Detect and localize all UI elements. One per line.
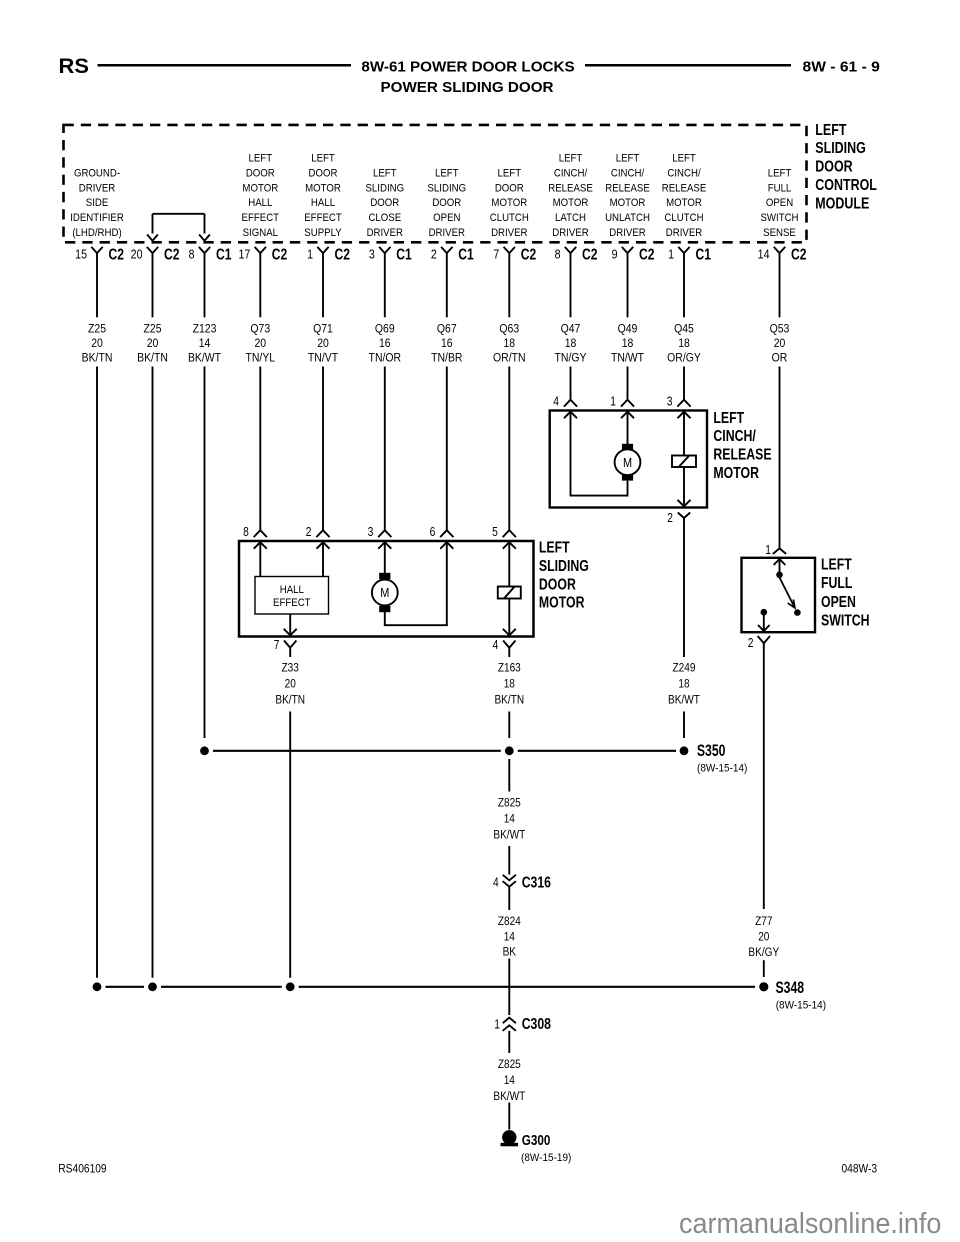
svg-text:20: 20 bbox=[254, 337, 266, 350]
svg-text:Q53: Q53 bbox=[770, 323, 790, 336]
module connector pin 20 C2 bbox=[131, 245, 180, 263]
svg-text:2: 2 bbox=[667, 512, 673, 525]
wire Z77 lower segment to S348 bbox=[763, 960, 765, 977]
sliding door motor pin 5 connector bbox=[492, 526, 516, 539]
svg-text:DRIVER: DRIVER bbox=[552, 226, 589, 239]
svg-text:LEFT: LEFT bbox=[497, 167, 521, 180]
wire Z824 from C316 bbox=[508, 887, 510, 910]
wire label Q47 18 TN/GY bbox=[555, 323, 587, 365]
wire Q53 OR upper segment from module pin bbox=[779, 253, 781, 317]
svg-text:CLUTCH: CLUTCH bbox=[490, 211, 529, 224]
splice S348 label bbox=[776, 979, 827, 1011]
wire label Z249 18 BK/WT bbox=[668, 662, 700, 707]
svg-text:6: 6 bbox=[430, 526, 436, 539]
svg-text:18: 18 bbox=[678, 337, 690, 350]
module connector pin 15 C2 bbox=[75, 245, 124, 263]
svg-text:C2: C2 bbox=[582, 245, 598, 263]
svg-text:G300: G300 bbox=[522, 1132, 551, 1149]
svg-text:C2: C2 bbox=[109, 245, 125, 263]
hall effect block bbox=[255, 543, 329, 614]
svg-text:FULL: FULL bbox=[821, 575, 853, 593]
module pin label: left door motor clutch driver bbox=[490, 167, 529, 239]
cinch motor pin 3 connector bbox=[667, 396, 691, 409]
wire label Q53 20 OR bbox=[770, 323, 790, 365]
wire Z249 lower segment to S350 bbox=[683, 712, 685, 739]
svg-text:MOTOR: MOTOR bbox=[242, 182, 278, 195]
sliding door motor entry arrow pin x=509.3 bbox=[503, 542, 516, 549]
svg-text:DOOR: DOOR bbox=[539, 576, 576, 594]
wire Z825 to ground bbox=[508, 1103, 510, 1130]
splice S348 node dots bbox=[93, 982, 769, 991]
svg-text:C2: C2 bbox=[791, 245, 807, 263]
wire label Q63 18 OR/TN bbox=[493, 323, 526, 365]
svg-text:RELEASE: RELEASE bbox=[605, 182, 650, 195]
svg-text:C2: C2 bbox=[521, 245, 537, 263]
svg-text:2: 2 bbox=[306, 526, 312, 539]
svg-text:3: 3 bbox=[369, 247, 375, 262]
wire Q47 TN/GY upper segment from module pin bbox=[570, 253, 572, 317]
svg-text:DOOR: DOOR bbox=[495, 182, 524, 195]
wire Z25 BK/TN upper segment from module pin bbox=[152, 253, 154, 317]
cinch motor pin 4 entry arrow bbox=[564, 412, 577, 419]
cinch motor pin 1 entry arrow bbox=[621, 412, 634, 419]
left sliding door motor box bbox=[239, 541, 534, 637]
header rule left bbox=[98, 64, 352, 67]
svg-text:LEFT: LEFT bbox=[616, 152, 640, 165]
svg-text:LATCH: LATCH bbox=[555, 211, 586, 224]
svg-text:20: 20 bbox=[91, 337, 103, 350]
module name label bbox=[815, 121, 877, 212]
svg-text:BK/WT: BK/WT bbox=[188, 352, 221, 365]
svg-text:Z249: Z249 bbox=[673, 662, 696, 675]
wire Q49 lower segment to cinch motor pin 1 bbox=[627, 367, 629, 400]
svg-text:C2: C2 bbox=[335, 245, 351, 263]
svg-text:C1: C1 bbox=[216, 245, 232, 263]
module pin label: left cinch/release motor unlatch driver bbox=[605, 152, 650, 239]
left cinch/release motor box bbox=[550, 411, 707, 508]
svg-text:BK: BK bbox=[503, 946, 517, 959]
cinch motor pin 3 entry arrow bbox=[678, 412, 691, 419]
module connector pin 1 C1 bbox=[668, 245, 711, 263]
sliding door motor entry arrow pin x=446.8 bbox=[440, 542, 453, 549]
sliding door motor pin 6 connector bbox=[430, 526, 454, 539]
svg-text:EFFECT: EFFECT bbox=[242, 211, 280, 224]
svg-text:OR/TN: OR/TN bbox=[493, 352, 526, 365]
svg-text:3: 3 bbox=[667, 396, 673, 409]
ground G300 symbol bbox=[501, 1130, 519, 1146]
svg-text:CONTROL: CONTROL bbox=[815, 177, 877, 195]
svg-text:Z33: Z33 bbox=[282, 662, 299, 675]
splice S350 label bbox=[697, 742, 747, 774]
sliding motor wire to pin 6 bbox=[384, 543, 448, 625]
svg-text:CINCH/: CINCH/ bbox=[713, 428, 755, 446]
svg-text:CLOSE: CLOSE bbox=[368, 211, 401, 224]
wire label Q73 20 TN/YL bbox=[245, 323, 275, 365]
wire Z25 BK/TN upper segment from module pin bbox=[96, 253, 98, 317]
svg-text:LEFT: LEFT bbox=[373, 167, 397, 180]
svg-text:OPEN: OPEN bbox=[766, 196, 793, 209]
sliding door motor entry arrow pin x=260.3 bbox=[254, 542, 267, 549]
splice S348 bus bbox=[106, 986, 756, 988]
wire label Q49 18 TN/WT bbox=[611, 323, 644, 365]
svg-text:BK/TN: BK/TN bbox=[82, 352, 113, 365]
svg-text:MODULE: MODULE bbox=[815, 195, 869, 213]
svg-text:16: 16 bbox=[441, 337, 453, 350]
wire Z825 segment below S350 bbox=[508, 759, 510, 792]
svg-text:048W-3: 048W-3 bbox=[842, 1163, 878, 1176]
module pin label: left door motor hall effect signal bbox=[242, 152, 280, 239]
svg-text:TN/OR: TN/OR bbox=[369, 352, 402, 365]
svg-text:POWER SLIDING DOOR: POWER SLIDING DOOR bbox=[381, 79, 554, 96]
svg-text:Q47: Q47 bbox=[561, 323, 581, 336]
svg-text:Z825: Z825 bbox=[498, 1058, 521, 1071]
svg-text:18: 18 bbox=[565, 337, 577, 350]
svg-text:BK/TN: BK/TN bbox=[494, 694, 524, 707]
svg-text:9: 9 bbox=[612, 247, 618, 262]
wire lower segment to sliding door motor pin 8 bbox=[259, 367, 261, 531]
splice S350 node dots bbox=[200, 746, 688, 755]
hall effect output wire to pin 7 bbox=[284, 614, 297, 635]
svg-text:S348: S348 bbox=[776, 979, 805, 997]
wire Z825 to C316 bbox=[508, 846, 510, 875]
svg-text:M: M bbox=[380, 585, 389, 600]
svg-text:MOTOR: MOTOR bbox=[539, 594, 585, 612]
footer sheet number bbox=[842, 1163, 878, 1176]
svg-text:DOOR: DOOR bbox=[432, 196, 461, 209]
svg-text:8: 8 bbox=[555, 247, 561, 262]
svg-text:Q49: Q49 bbox=[618, 323, 638, 336]
cinch internal wire pin1 to motor positive bbox=[627, 413, 629, 445]
svg-text:DRIVER: DRIVER bbox=[491, 226, 528, 239]
wire label Z163 18 BK/TN bbox=[494, 662, 524, 707]
wire Z33 through S350 area down to S348 bbox=[289, 712, 291, 978]
sliding door motor M bbox=[372, 543, 398, 612]
wire label Z825 14 BK/WT bbox=[493, 797, 525, 842]
svg-text:20: 20 bbox=[285, 678, 296, 691]
wire Q47 lower segment to cinch motor pin 4 bbox=[570, 367, 572, 400]
svg-text:Q45: Q45 bbox=[674, 323, 694, 336]
wire Z77 from switch pin 2 bbox=[763, 643, 765, 909]
svg-text:3: 3 bbox=[368, 526, 374, 539]
wire Z25 (pin 15) lower segment to S348 bbox=[96, 367, 98, 978]
svg-text:MOTOR: MOTOR bbox=[666, 196, 702, 209]
module connector pin 8 C1 bbox=[189, 245, 232, 263]
svg-text:IDENTIFIER: IDENTIFIER bbox=[70, 211, 124, 224]
svg-text:20: 20 bbox=[147, 337, 159, 350]
watermark bbox=[679, 1207, 941, 1239]
svg-text:BK/WT: BK/WT bbox=[668, 694, 700, 707]
svg-text:C316: C316 bbox=[522, 873, 551, 891]
wire Z25 (pin 20) lower segment to S348 bbox=[152, 367, 154, 978]
wire Z123 BK/WT upper segment from module pin bbox=[204, 253, 206, 317]
svg-text:BK/GY: BK/GY bbox=[748, 946, 779, 959]
svg-text:EFFECT: EFFECT bbox=[273, 596, 311, 609]
module connector pin 2 C1 bbox=[431, 245, 474, 263]
svg-text:C1: C1 bbox=[396, 245, 412, 263]
wire label Q45 18 OR/GY bbox=[667, 323, 701, 365]
svg-text:14: 14 bbox=[504, 813, 515, 826]
cinch motor pin 1 connector bbox=[610, 396, 634, 409]
svg-text:SIGNAL: SIGNAL bbox=[243, 226, 278, 239]
svg-text:RELEASE: RELEASE bbox=[713, 446, 771, 464]
svg-text:SLIDING: SLIDING bbox=[365, 182, 404, 195]
wire lower segment to sliding door motor pin 6 bbox=[446, 367, 448, 531]
wire Z825 from C308 bbox=[508, 1031, 510, 1053]
svg-text:C1: C1 bbox=[458, 245, 474, 263]
header rule right bbox=[585, 64, 791, 67]
svg-text:MOTOR: MOTOR bbox=[305, 182, 341, 195]
svg-text:DOOR: DOOR bbox=[815, 158, 853, 176]
sliding door motor pin 7 connector bbox=[274, 639, 297, 652]
wire Q73 TN/YL upper segment from module pin bbox=[259, 253, 261, 317]
svg-text:7: 7 bbox=[493, 247, 499, 262]
svg-text:4: 4 bbox=[493, 877, 499, 890]
module pin label: left sliding door close driver bbox=[365, 167, 404, 239]
splice S350 bus bbox=[213, 750, 676, 752]
wire label Q71 20 TN/VT bbox=[308, 323, 338, 365]
svg-text:MOTOR: MOTOR bbox=[610, 196, 646, 209]
module connector pin 8 C2 bbox=[555, 245, 598, 263]
full open switch pin 2 connector bbox=[748, 636, 770, 650]
svg-text:LEFT: LEFT bbox=[311, 152, 335, 165]
svg-text:SLIDING: SLIDING bbox=[427, 182, 466, 195]
footer document number bbox=[58, 1163, 106, 1176]
svg-text:2: 2 bbox=[431, 247, 437, 262]
wire label Z825 14 BK/WT (lower) bbox=[493, 1058, 525, 1103]
svg-text:1: 1 bbox=[307, 247, 313, 262]
sliding door clutch coil bbox=[498, 543, 521, 635]
wire label Z123 14 BK/WT bbox=[188, 323, 221, 365]
svg-text:TN/BR: TN/BR bbox=[431, 352, 462, 365]
wire Q71 TN/VT upper segment from module pin bbox=[322, 253, 324, 317]
wire Z249 upper segment from cinch pin 2 bbox=[683, 518, 685, 657]
svg-text:BK/TN: BK/TN bbox=[275, 694, 305, 707]
svg-text:DRIVER: DRIVER bbox=[79, 182, 116, 195]
svg-text:DRIVER: DRIVER bbox=[367, 226, 404, 239]
svg-text:SIDE: SIDE bbox=[86, 196, 109, 209]
cinch clutch coil bbox=[672, 413, 696, 507]
sliding door motor entry arrow pin x=384.8 bbox=[378, 542, 391, 549]
module pin label: left sliding door open driver bbox=[427, 167, 466, 239]
svg-text:LEFT: LEFT bbox=[815, 121, 846, 139]
svg-text:LEFT: LEFT bbox=[539, 539, 570, 557]
svg-text:4: 4 bbox=[553, 396, 559, 409]
switch blade with arrow bbox=[780, 578, 795, 608]
sliding door motor entry arrow pin x=323.0 bbox=[317, 542, 330, 549]
svg-text:1: 1 bbox=[668, 247, 674, 262]
left sliding door control module dashed outline bbox=[64, 125, 807, 242]
cinch motor M bbox=[615, 444, 641, 481]
switch output contact to pin 2 bbox=[758, 609, 770, 631]
left full open switch label bbox=[821, 556, 870, 630]
svg-text:Q69: Q69 bbox=[375, 323, 395, 336]
wire Q45 lower segment to cinch motor pin 3 bbox=[683, 367, 685, 400]
svg-text:C1: C1 bbox=[696, 245, 712, 263]
module connector pin 3 C1 bbox=[369, 245, 412, 263]
wire lower segment to sliding door motor pin 5 bbox=[508, 367, 510, 531]
svg-text:OPEN: OPEN bbox=[433, 211, 460, 224]
svg-text:MOTOR: MOTOR bbox=[491, 196, 527, 209]
svg-text:BK/TN: BK/TN bbox=[137, 352, 168, 365]
svg-text:5: 5 bbox=[492, 526, 498, 539]
svg-text:7: 7 bbox=[274, 639, 280, 652]
left full open switch box bbox=[742, 558, 816, 632]
svg-text:18: 18 bbox=[503, 337, 515, 350]
svg-text:LEFT: LEFT bbox=[768, 167, 792, 180]
svg-text:Z123: Z123 bbox=[193, 323, 217, 336]
svg-text:16: 16 bbox=[379, 337, 391, 350]
svg-text:14: 14 bbox=[504, 930, 515, 943]
module pin label: left cinch/release motor latch driver bbox=[548, 152, 593, 239]
svg-text:SLIDING: SLIDING bbox=[539, 558, 589, 576]
svg-text:Z825: Z825 bbox=[498, 797, 521, 810]
svg-text:HALL: HALL bbox=[311, 196, 335, 209]
sliding door motor pin 3 connector bbox=[368, 526, 392, 539]
svg-text:Q63: Q63 bbox=[499, 323, 519, 336]
svg-text:TN/VT: TN/VT bbox=[308, 352, 338, 365]
svg-text:SLIDING: SLIDING bbox=[815, 140, 866, 158]
wire Q63 OR/TN upper segment from module pin bbox=[508, 253, 510, 317]
svg-text:C2: C2 bbox=[164, 245, 180, 263]
wire Q67 TN/BR upper segment from module pin bbox=[446, 253, 448, 317]
svg-text:Q73: Q73 bbox=[250, 323, 270, 336]
svg-text:HALL: HALL bbox=[248, 196, 272, 209]
svg-text:CINCH/: CINCH/ bbox=[611, 167, 644, 180]
svg-text:EFFECT: EFFECT bbox=[304, 211, 342, 224]
wire label Z77 20 BK/GY bbox=[748, 915, 779, 959]
wire label Z25 20 BK/TN bbox=[137, 323, 168, 365]
header title bbox=[361, 59, 574, 96]
svg-text:14: 14 bbox=[504, 1074, 515, 1087]
svg-text:Z25: Z25 bbox=[88, 323, 106, 336]
left cinch/release motor label bbox=[713, 410, 771, 483]
svg-text:20: 20 bbox=[317, 337, 329, 350]
svg-text:14: 14 bbox=[199, 337, 211, 350]
wire Z163 lower segment to S350 bbox=[508, 712, 510, 739]
switch open contact bbox=[794, 609, 801, 616]
svg-text:4: 4 bbox=[493, 639, 499, 652]
svg-text:TN/WT: TN/WT bbox=[611, 352, 644, 365]
svg-text:S350: S350 bbox=[697, 742, 726, 760]
wire label Q67 16 TN/BR bbox=[431, 323, 462, 365]
module pin label: left door motor hall effect supply bbox=[304, 152, 342, 239]
svg-text:DRIVER: DRIVER bbox=[666, 226, 703, 239]
svg-text:RELEASE: RELEASE bbox=[662, 182, 707, 195]
svg-text:C308: C308 bbox=[522, 1015, 551, 1033]
wire Z33 from pin 7 bbox=[289, 648, 291, 657]
wire Z824 through S348 to C308 bbox=[508, 959, 510, 1016]
svg-text:SUPPLY: SUPPLY bbox=[304, 226, 341, 239]
svg-text:M: M bbox=[623, 455, 632, 470]
svg-text:8W - 61 - 9: 8W - 61 - 9 bbox=[803, 59, 880, 76]
svg-text:OR/GY: OR/GY bbox=[667, 352, 701, 365]
svg-text:20: 20 bbox=[774, 337, 786, 350]
svg-text:DRIVER: DRIVER bbox=[429, 226, 466, 239]
svg-text:RS: RS bbox=[59, 53, 89, 78]
svg-text:DOOR: DOOR bbox=[246, 167, 275, 180]
wire lower segment to sliding door motor pin 2 bbox=[322, 367, 324, 531]
module connector pin 9 C2 bbox=[612, 245, 655, 263]
svg-text:C2: C2 bbox=[272, 245, 288, 263]
svg-text:20: 20 bbox=[758, 931, 769, 944]
module connector pin 17 C2 bbox=[238, 245, 287, 263]
svg-text:MOTOR: MOTOR bbox=[713, 464, 759, 482]
header label RS bbox=[59, 53, 89, 78]
in-line connector C308 pin 1 bbox=[494, 1015, 551, 1033]
svg-text:17: 17 bbox=[238, 247, 250, 262]
sliding door motor pin 2 connector bbox=[306, 526, 330, 539]
cinch internal wire pin4 to motor negative bbox=[570, 413, 629, 496]
module pin label: ground-driver side identifier bbox=[70, 167, 124, 239]
svg-text:TN/YL: TN/YL bbox=[245, 352, 275, 365]
svg-text:BK/WT: BK/WT bbox=[493, 1090, 525, 1103]
wire label Z33 20 BK/TN bbox=[275, 662, 305, 707]
svg-text:LEFT: LEFT bbox=[559, 152, 583, 165]
svg-text:(8W-15-14): (8W-15-14) bbox=[697, 762, 747, 775]
svg-text:15: 15 bbox=[75, 247, 87, 262]
wire Q45 OR/GY upper segment from module pin bbox=[683, 253, 685, 317]
svg-text:1: 1 bbox=[765, 544, 771, 557]
svg-text:Q67: Q67 bbox=[437, 323, 457, 336]
svg-text:BK/WT: BK/WT bbox=[493, 829, 525, 842]
svg-text:C2: C2 bbox=[639, 245, 655, 263]
svg-text:18: 18 bbox=[678, 678, 689, 691]
svg-text:SWITCH: SWITCH bbox=[760, 211, 798, 224]
wire Z123 lower segment to S350 bbox=[204, 367, 206, 739]
svg-text:(LHD/RHD): (LHD/RHD) bbox=[72, 226, 121, 239]
svg-text:DRIVER: DRIVER bbox=[609, 226, 646, 239]
svg-text:UNLATCH: UNLATCH bbox=[605, 211, 650, 224]
svg-text:CINCH/: CINCH/ bbox=[554, 167, 587, 180]
svg-text:Q71: Q71 bbox=[313, 323, 333, 336]
svg-text:LEFT: LEFT bbox=[821, 556, 852, 574]
svg-text:Z25: Z25 bbox=[143, 323, 161, 336]
svg-text:Z77: Z77 bbox=[755, 915, 772, 928]
svg-text:Z163: Z163 bbox=[498, 662, 521, 675]
svg-text:18: 18 bbox=[504, 678, 515, 691]
cinch motor pin 2 connector bbox=[667, 512, 690, 525]
svg-text:1: 1 bbox=[494, 1018, 500, 1031]
svg-text:OR: OR bbox=[772, 352, 788, 365]
svg-text:14: 14 bbox=[758, 247, 770, 262]
svg-text:carmanualsonline.info: carmanualsonline.info bbox=[679, 1207, 941, 1239]
svg-text:(8W-15-14): (8W-15-14) bbox=[776, 999, 826, 1012]
module internal jumper wire pins 20-8 bbox=[147, 214, 210, 241]
svg-text:SWITCH: SWITCH bbox=[821, 612, 870, 630]
svg-text:8: 8 bbox=[189, 247, 195, 262]
svg-text:HALL: HALL bbox=[280, 583, 304, 596]
svg-text:18: 18 bbox=[622, 337, 634, 350]
module pin label: left cinch/release motor clutch driver bbox=[662, 152, 707, 239]
svg-text:20: 20 bbox=[131, 247, 143, 262]
module connector pin 14 C2 bbox=[758, 245, 807, 263]
svg-text:RELEASE: RELEASE bbox=[548, 182, 593, 195]
svg-text:LEFT: LEFT bbox=[435, 167, 459, 180]
svg-text:2: 2 bbox=[748, 637, 754, 650]
module connector pin 7 C2 bbox=[493, 245, 536, 263]
left sliding door motor label bbox=[539, 539, 589, 612]
svg-text:Z824: Z824 bbox=[498, 915, 521, 928]
svg-text:DOOR: DOOR bbox=[309, 167, 338, 180]
svg-text:MOTOR: MOTOR bbox=[553, 196, 589, 209]
sliding door motor pin 4 connector bbox=[493, 639, 516, 652]
svg-text:SENSE: SENSE bbox=[763, 226, 796, 239]
header page number bbox=[803, 59, 880, 76]
ground G300 label bbox=[521, 1132, 571, 1164]
full open switch pin 1 connector bbox=[765, 544, 786, 557]
svg-text:8W-61 POWER DOOR LOCKS: 8W-61 POWER DOOR LOCKS bbox=[361, 59, 574, 76]
wire label Z25 20 BK/TN bbox=[82, 323, 113, 365]
